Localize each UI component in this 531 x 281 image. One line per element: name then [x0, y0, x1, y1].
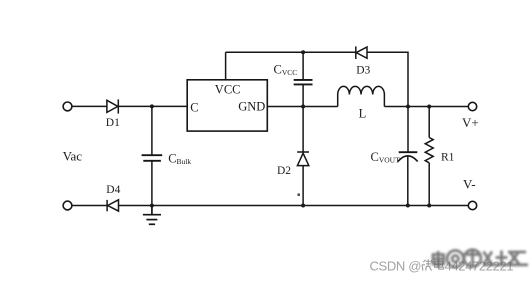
ground — [143, 206, 161, 225]
wire: CVCC bottom plate to GND rail — [302, 84, 304, 106]
watermark CJK glyph dian (drawn) — [435, 259, 444, 270]
wire: top rail from VCC to D3 cathode — [226, 51, 356, 53]
diode D2 — [297, 152, 309, 166]
svg-text:D4: D4 — [106, 184, 120, 196]
capacitor CBulk — [142, 155, 163, 161]
junction: node B (CVCC top on VCC rail) — [301, 50, 305, 54]
svg-text:VCC: VCC — [215, 82, 241, 96]
diode D1 — [107, 99, 118, 113]
resistor R1 — [425, 138, 433, 163]
wire: R1 bottom stem to bottom rail — [428, 163, 430, 206]
svg-text:C: C — [190, 100, 198, 114]
wire: input bottom to diode D4 cathode — [72, 205, 107, 207]
svg-text:L: L — [359, 107, 367, 121]
wire: node A down to capacitor CBulk — [151, 106, 153, 155]
wire: inductor L to V+ terminal — [384, 106, 468, 108]
svg-text:D1: D1 — [106, 117, 120, 129]
wire: D3 anode to right, corner down to output rail node C — [367, 52, 408, 106]
diode D3 — [356, 46, 367, 59]
junction: bottom rail at D2 — [301, 204, 305, 208]
wire: D2 anode to bottom rail — [302, 166, 304, 206]
svg-text:V+: V+ — [462, 115, 479, 130]
wire: R1 top stem — [428, 107, 430, 138]
wire: IC GND pin to inductor L — [267, 106, 337, 108]
stray speck near D2 — [298, 194, 300, 196]
junction: R1 top node — [427, 105, 431, 109]
svg-text:CVCC: CVCC — [274, 62, 298, 77]
wire: input top to diode D1 anode — [72, 105, 107, 107]
wire: CVOUT bottom to bottom rail — [407, 156, 409, 206]
terminal: V+ output — [468, 102, 476, 110]
svg-text:CVOUT: CVOUT — [371, 150, 401, 165]
svg-text:D2: D2 — [277, 165, 291, 177]
wire: CBulk to bottom rail ground node — [151, 161, 153, 206]
capacitor CVCC — [294, 80, 313, 85]
terminal: V- output — [468, 201, 476, 209]
svg-text:CBulk: CBulk — [168, 152, 191, 167]
junction: GND rail at CVCC / D2 node — [301, 105, 305, 109]
wire: D2 cathode stem from GND rail — [302, 107, 304, 153]
IC U1 (control chip, pins VCC / C / GND) — [187, 80, 267, 131]
svg-text:D3: D3 — [356, 64, 370, 76]
junction: bottom rail at CVOUT — [406, 204, 410, 208]
wire: CVOUT from node C down to top plate — [407, 107, 409, 153]
diode D4 — [107, 200, 118, 212]
junction: node A (x=152, top-left rail) — [150, 104, 154, 108]
inductor L — [338, 86, 385, 106]
terminal: AC input top — [63, 102, 72, 111]
svg-text:GND: GND — [238, 99, 265, 113]
svg-text:Vac: Vac — [63, 148, 83, 163]
wire: bottom rail from D4 anode to V- terminal — [119, 205, 469, 207]
capacitor CVOUT (polarized) — [398, 152, 418, 161]
watermark dark stamp overlay — [433, 250, 528, 268]
svg-text:V-: V- — [463, 177, 476, 192]
junction: node C (CVOUT top) — [406, 105, 410, 109]
wire: VCC pin stem up to top rail — [225, 52, 227, 80]
wire: D1 cathode to IC pin C, junction at node A — [118, 105, 187, 107]
svg-text:CSDN @: CSDN @ — [370, 259, 422, 274]
junction: bottom rail at R1 — [427, 204, 431, 208]
wire: CVCC from node B down to top plate — [302, 52, 304, 80]
junction: bottom rail ground node — [150, 204, 154, 208]
svg-text:R1: R1 — [441, 151, 455, 163]
watermark CJK glyph wei (drawn) — [422, 259, 444, 271]
terminal: AC input bottom — [63, 201, 72, 210]
